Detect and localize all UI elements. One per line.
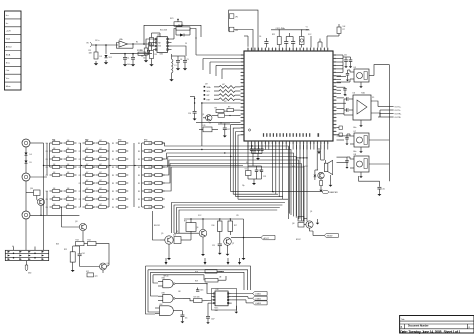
title block bbox=[400, 316, 474, 334]
wire bbox=[153, 211, 161, 240]
power arrow bbox=[204, 258, 207, 265]
diode D3 bbox=[314, 170, 318, 180]
svg-text:4K7: 4K7 bbox=[86, 204, 89, 206]
svg-text:BC547: BC547 bbox=[296, 239, 301, 241]
capacitor C28 bbox=[284, 37, 288, 48]
svg-text:R4: R4 bbox=[46, 175, 48, 177]
net label OUTL+ bbox=[378, 107, 402, 109]
resistor R1 bbox=[89, 45, 99, 65]
svg-text:AGnd: AGnd bbox=[6, 46, 12, 49]
svg-text:D4: D4 bbox=[30, 154, 32, 156]
wire bbox=[244, 36, 248, 47]
svg-text:R3: R3 bbox=[149, 159, 151, 161]
transistor Q3 bbox=[62, 207, 87, 238]
power arrow bbox=[165, 258, 168, 265]
wire bbox=[110, 53, 152, 55]
resistor R6 bbox=[172, 25, 197, 39]
svg-text:JP2: JP2 bbox=[235, 30, 238, 32]
gate U9B bbox=[158, 292, 183, 302]
wire bbox=[374, 65, 389, 76]
svg-text:C6: C6 bbox=[259, 36, 261, 38]
resistor R4 bbox=[150, 46, 157, 59]
jack J4 bbox=[22, 173, 47, 211]
svg-text:C24: C24 bbox=[82, 253, 85, 255]
svg-text:R14: R14 bbox=[88, 239, 91, 241]
svg-text:LOAD2: LOAD2 bbox=[255, 297, 261, 300]
ground bbox=[316, 219, 320, 225]
svg-text:In-: In- bbox=[6, 23, 9, 25]
net label OUTR- bbox=[378, 117, 401, 119]
svg-text:U8: U8 bbox=[354, 154, 356, 156]
svg-text:C5: C5 bbox=[187, 59, 189, 61]
wire bbox=[146, 39, 153, 48]
gate U9C bbox=[155, 304, 182, 316]
wire bbox=[229, 10, 258, 51]
svg-text:R4: R4 bbox=[60, 167, 62, 169]
wire bbox=[190, 97, 195, 112]
IC U12 bbox=[86, 271, 98, 278]
capacitor C5 bbox=[178, 56, 189, 70]
svg-text:Document Number: Document Number bbox=[408, 325, 429, 328]
svg-text:OUTL+: OUTL+ bbox=[395, 107, 402, 109]
capacitor C14 bbox=[345, 157, 350, 169]
svg-text:R4: R4 bbox=[60, 143, 62, 145]
wire bbox=[174, 232, 199, 234]
jack J3 bbox=[22, 139, 44, 153]
svg-text:4K7: 4K7 bbox=[86, 188, 89, 190]
svg-text:R3: R3 bbox=[112, 207, 114, 209]
svg-text:4K7: 4K7 bbox=[99, 140, 102, 142]
wire bbox=[379, 65, 389, 182]
svg-text:10K: 10K bbox=[53, 156, 56, 158]
resistor R5 bbox=[140, 48, 149, 62]
wire bbox=[248, 145, 328, 150]
net flag LOAD2 bbox=[232, 296, 267, 300]
resistor R15 bbox=[184, 219, 196, 231]
capacitor C12 bbox=[344, 99, 353, 115]
wire bbox=[318, 39, 322, 48]
svg-text:OUTR+: OUTR+ bbox=[395, 114, 403, 116]
svg-text:R3: R3 bbox=[149, 183, 151, 185]
capacitor C24 bbox=[78, 248, 85, 261]
ground bbox=[149, 59, 153, 67]
svg-text:R2: R2 bbox=[92, 207, 94, 209]
svg-text:R3: R3 bbox=[138, 191, 140, 193]
svg-text:R4: R4 bbox=[60, 199, 62, 201]
input jack J2 bbox=[87, 42, 95, 47]
svg-text:R2: R2 bbox=[92, 151, 94, 153]
IC U7 bbox=[350, 131, 389, 153]
svg-text:C41: C41 bbox=[344, 95, 347, 97]
svg-text:BEEPER: BEEPER bbox=[330, 192, 339, 194]
ground bbox=[359, 120, 363, 127]
svg-text:R3: R3 bbox=[149, 151, 151, 153]
svg-text:R3: R3 bbox=[149, 175, 151, 177]
IC U8 bbox=[350, 154, 389, 178]
transistor Q4 bbox=[100, 263, 110, 273]
wire bbox=[81, 143, 142, 207]
transistor Q10 bbox=[26, 188, 45, 216]
wire bbox=[371, 101, 380, 117]
IC U2 bbox=[153, 35, 172, 56]
svg-text:4MHz: 4MHz bbox=[306, 29, 310, 31]
ground bbox=[329, 175, 333, 187]
crystal Y1 bbox=[299, 27, 309, 48]
jumper JP2 bbox=[229, 27, 238, 32]
svg-text:Mute: Mute bbox=[6, 85, 12, 88]
svg-text:R3: R3 bbox=[149, 143, 151, 145]
ground bbox=[377, 192, 381, 196]
wire bbox=[183, 298, 211, 300]
wire bbox=[248, 145, 262, 167]
net flag AOUT bbox=[261, 235, 275, 240]
wire bbox=[231, 125, 241, 200]
svg-text:R3: R3 bbox=[112, 199, 114, 201]
capacitor C25 bbox=[212, 240, 222, 255]
svg-text:4K7: 4K7 bbox=[222, 84, 225, 86]
crystal Y3 bbox=[245, 166, 252, 179]
wire bbox=[128, 43, 153, 45]
wire bbox=[212, 289, 237, 311]
svg-text:10K: 10K bbox=[53, 204, 56, 206]
svg-text:C4: C4 bbox=[180, 59, 182, 61]
svg-text:10K: 10K bbox=[67, 204, 70, 206]
svg-text:R3: R3 bbox=[138, 159, 140, 161]
svg-text:4K7: 4K7 bbox=[86, 156, 89, 158]
svg-text:R12: R12 bbox=[64, 249, 67, 251]
resistor R21 bbox=[272, 30, 281, 48]
svg-text:SCL: SCL bbox=[207, 91, 211, 93]
capacitor C26 bbox=[180, 311, 187, 324]
capacitor C31 bbox=[196, 288, 204, 292]
svg-text:100n: 100n bbox=[353, 151, 357, 153]
svg-text:BZX: BZX bbox=[56, 244, 59, 246]
svg-text:J6: J6 bbox=[12, 246, 14, 248]
svg-text:C1: C1 bbox=[127, 58, 129, 60]
svg-text:D1: D1 bbox=[100, 56, 102, 58]
wire bbox=[231, 191, 323, 192]
svg-text:R3: R3 bbox=[112, 143, 114, 145]
resistor R12 bbox=[64, 246, 75, 272]
IC U11 bbox=[199, 125, 218, 132]
svg-text:Q4: Q4 bbox=[107, 263, 109, 265]
jumper JP1 bbox=[229, 14, 238, 19]
transistor Q2 bbox=[318, 172, 324, 180]
svg-text:RN3: RN3 bbox=[118, 140, 121, 142]
svg-text:U12: U12 bbox=[86, 271, 89, 273]
diode D5 bbox=[25, 155, 32, 173]
svg-text:R22 220K: R22 220K bbox=[160, 30, 168, 32]
svg-text:RN2: RN2 bbox=[85, 140, 88, 142]
svg-text:R4: R4 bbox=[60, 159, 62, 161]
svg-text:R3: R3 bbox=[112, 159, 114, 161]
optocoupler U10 bbox=[211, 289, 231, 312]
svg-text:R2: R2 bbox=[92, 143, 94, 145]
capacitor C15 bbox=[377, 187, 384, 192]
svg-text:5V1: 5V1 bbox=[109, 57, 112, 59]
wire bbox=[172, 203, 286, 234]
diode D4 bbox=[25, 153, 32, 157]
svg-text:+12V: +12V bbox=[6, 31, 12, 33]
svg-text:U7: U7 bbox=[354, 131, 356, 133]
resistor R3 bbox=[150, 33, 157, 46]
svg-text:R3: R3 bbox=[149, 191, 151, 193]
capacitor C9 bbox=[346, 70, 350, 81]
wire bbox=[201, 101, 241, 104]
svg-text:R4: R4 bbox=[60, 151, 62, 153]
svg-text:555: 555 bbox=[158, 46, 161, 48]
svg-text:RN4: RN4 bbox=[144, 140, 147, 142]
svg-text:OUTL-: OUTL- bbox=[395, 110, 401, 112]
svg-text:10n: 10n bbox=[143, 58, 146, 60]
svg-text:R2: R2 bbox=[92, 191, 94, 193]
svg-text:R21: R21 bbox=[272, 34, 275, 36]
ground bbox=[235, 306, 239, 314]
capacitor C3 bbox=[141, 48, 150, 58]
svg-text:Q8: Q8 bbox=[292, 223, 294, 225]
capacitor C8 bbox=[349, 57, 353, 68]
wire bbox=[308, 34, 312, 48]
svg-text:R3: R3 bbox=[138, 143, 140, 145]
wire bbox=[144, 25, 201, 44]
wire bbox=[196, 37, 222, 79]
svg-text:Q1: Q1 bbox=[202, 114, 204, 116]
net flag down bbox=[25, 265, 28, 271]
svg-text:10K: 10K bbox=[67, 140, 70, 142]
wire bbox=[80, 261, 100, 267]
capacitor C22 bbox=[255, 166, 262, 176]
resistor R7 bbox=[327, 24, 346, 48]
svg-text:Y1: Y1 bbox=[306, 27, 308, 29]
svg-text:C40: C40 bbox=[344, 55, 347, 57]
wire bbox=[272, 145, 282, 200]
svg-text:R3: R3 bbox=[138, 175, 140, 177]
resistor R18 bbox=[195, 270, 224, 274]
resistor R10 bbox=[212, 114, 241, 118]
op-amp U3 bbox=[119, 38, 128, 48]
svg-text:C9 1u: C9 1u bbox=[95, 40, 99, 42]
power arrow bbox=[238, 258, 241, 265]
svg-text:U9B: U9B bbox=[162, 292, 165, 294]
net flag LOAD1 bbox=[232, 292, 267, 296]
wire bbox=[26, 261, 28, 265]
svg-text:U6: U6 bbox=[353, 93, 355, 95]
svg-text:R3: R3 bbox=[112, 183, 114, 185]
svg-text:R3: R3 bbox=[149, 167, 151, 169]
svg-text:R3: R3 bbox=[112, 175, 114, 177]
power arrow bbox=[227, 258, 230, 265]
capacitor C7 bbox=[344, 57, 348, 68]
net label VCC bbox=[292, 165, 309, 168]
connector J1 bbox=[5, 11, 22, 90]
gate U9A bbox=[158, 277, 180, 288]
resistor R20 bbox=[194, 297, 203, 303]
wire bbox=[181, 231, 191, 240]
wire bbox=[337, 136, 351, 140]
svg-text:Q7: Q7 bbox=[232, 243, 234, 245]
net label OUTR+ bbox=[380, 114, 402, 116]
svg-text:U13: U13 bbox=[173, 235, 176, 237]
svg-text:Date: Tuesday, June 14, 2005: Date: Tuesday, June 14, 2005 Sheet 1 of … bbox=[400, 330, 460, 334]
jack J5 bbox=[22, 211, 79, 250]
svg-text:R2: R2 bbox=[92, 199, 94, 201]
wire bbox=[337, 157, 349, 162]
capacitor C17 bbox=[218, 123, 230, 137]
svg-text:R15: R15 bbox=[184, 220, 187, 222]
resistor R13 bbox=[76, 239, 85, 245]
net flag RELAY bbox=[324, 234, 338, 238]
capacitor C10 bbox=[337, 87, 347, 96]
svg-text:10K: 10K bbox=[53, 172, 56, 174]
svg-text:R2: R2 bbox=[92, 159, 94, 161]
svg-text:10K: 10K bbox=[53, 188, 56, 190]
svg-text:4K7: 4K7 bbox=[99, 180, 102, 182]
power arrow bbox=[318, 148, 321, 154]
svg-text:Y3: Y3 bbox=[245, 169, 247, 171]
svg-text:10K: 10K bbox=[67, 148, 70, 150]
svg-text:4K7: 4K7 bbox=[86, 148, 89, 150]
svg-text:4K7: 4K7 bbox=[205, 84, 208, 86]
svg-text:RV1: RV1 bbox=[170, 18, 173, 20]
svg-text:4K7: 4K7 bbox=[86, 172, 89, 174]
ground bbox=[248, 176, 262, 185]
svg-text:R4: R4 bbox=[155, 54, 157, 56]
text bbox=[52, 140, 147, 142]
capacitor C11 bbox=[344, 97, 353, 100]
svg-text:Q3: Q3 bbox=[75, 221, 77, 223]
svg-text:LOAD1: LOAD1 bbox=[255, 293, 261, 296]
svg-text:D5: D5 bbox=[30, 162, 32, 164]
svg-text:4K7: 4K7 bbox=[99, 172, 102, 174]
wire bbox=[233, 194, 288, 199]
wire bbox=[196, 122, 241, 123]
svg-text:R2: R2 bbox=[136, 42, 138, 44]
transistor Q5 bbox=[160, 233, 173, 260]
svg-text:R2: R2 bbox=[92, 175, 94, 177]
transistor Q6 bbox=[196, 226, 207, 256]
wire bbox=[290, 145, 307, 222]
resistor network RN3 bbox=[112, 142, 165, 209]
svg-text:R5: R5 bbox=[140, 50, 142, 52]
wire bbox=[287, 214, 289, 219]
resistor R16 bbox=[212, 219, 223, 240]
svg-text:Q9: Q9 bbox=[310, 211, 312, 213]
resistor R8 bbox=[215, 108, 228, 113]
svg-text:R3: R3 bbox=[149, 199, 151, 201]
capacitor C4 bbox=[172, 56, 183, 70]
microcontroller U1 bbox=[241, 48, 337, 145]
wire bbox=[172, 46, 187, 56]
wire bbox=[337, 77, 351, 82]
wire bbox=[359, 176, 380, 187]
terminal block TB1 bbox=[5, 247, 48, 261]
trimmer RV1 bbox=[170, 18, 182, 26]
svg-text:1K: 1K bbox=[176, 231, 178, 233]
svg-text:4K7: 4K7 bbox=[99, 196, 102, 198]
svg-text:X2: X2 bbox=[246, 162, 248, 164]
svg-text:L1: L1 bbox=[175, 65, 177, 67]
svg-text:R16: R16 bbox=[212, 225, 215, 227]
svg-text:10n: 10n bbox=[185, 318, 188, 320]
resistor network RN2 bbox=[79, 140, 109, 209]
svg-text:10K: 10K bbox=[53, 148, 56, 150]
svg-text:OUTR-: OUTR- bbox=[395, 117, 402, 119]
wire bbox=[317, 145, 324, 171]
svg-text:12V: 12V bbox=[236, 215, 239, 217]
wire bbox=[242, 219, 246, 260]
capacitor bank C18-C21 bbox=[250, 145, 264, 160]
IC U13 bbox=[173, 235, 181, 244]
svg-text:4K7: 4K7 bbox=[99, 148, 102, 150]
svg-text:R2: R2 bbox=[92, 167, 94, 169]
resistor R9 bbox=[227, 107, 241, 112]
IC U6 bbox=[353, 92, 372, 120]
wire bbox=[146, 266, 251, 314]
svg-text:OSC1 4MHz: OSC1 4MHz bbox=[276, 28, 286, 30]
svg-text:R17: R17 bbox=[234, 225, 237, 227]
svg-text:SDA: SDA bbox=[6, 53, 11, 56]
svg-text:U10: U10 bbox=[216, 289, 219, 291]
svg-text:100n: 100n bbox=[200, 290, 204, 292]
wire bbox=[231, 237, 261, 238]
svg-text:10K: 10K bbox=[67, 196, 70, 198]
svg-text:C16: C16 bbox=[188, 113, 191, 115]
svg-text:R3: R3 bbox=[112, 191, 114, 193]
wire bbox=[296, 145, 308, 159]
svg-text:R4: R4 bbox=[60, 175, 62, 177]
svg-text:R9: R9 bbox=[228, 107, 230, 109]
transistor Q8 bbox=[292, 217, 324, 236]
svg-text:5532: 5532 bbox=[160, 54, 164, 56]
svg-text:10K: 10K bbox=[67, 188, 70, 190]
net label SDA bbox=[204, 86, 241, 90]
svg-text:R2: R2 bbox=[79, 207, 81, 209]
resistor R19 bbox=[195, 275, 226, 283]
capacitor C6 bbox=[259, 36, 269, 48]
svg-text:R13: R13 bbox=[76, 239, 79, 241]
wire bbox=[337, 98, 347, 114]
svg-text:100n: 100n bbox=[127, 64, 131, 66]
net label BEEP bbox=[322, 190, 338, 194]
capacitor C2 bbox=[127, 54, 135, 67]
transistor Q1 bbox=[202, 114, 212, 121]
wire bbox=[184, 218, 244, 226]
svg-text:Q6: Q6 bbox=[196, 227, 198, 229]
svg-text:R3: R3 bbox=[138, 183, 140, 185]
svg-text:R3: R3 bbox=[149, 207, 151, 209]
svg-text:U5: U5 bbox=[354, 67, 356, 69]
capacitor C30 bbox=[337, 126, 343, 136]
wire bbox=[117, 43, 134, 49]
wire bbox=[44, 165, 243, 166]
svg-text:4K7: 4K7 bbox=[99, 188, 102, 190]
svg-text:R6 1M: R6 1M bbox=[178, 25, 184, 27]
svg-text:AOUT: AOUT bbox=[264, 237, 270, 240]
svg-text:10K: 10K bbox=[67, 156, 70, 158]
svg-text:C17: C17 bbox=[227, 129, 230, 131]
net flag LOAD3 bbox=[232, 300, 267, 305]
svg-text:R7: R7 bbox=[343, 29, 345, 31]
wire bbox=[271, 28, 309, 30]
svg-text:4K7: 4K7 bbox=[86, 196, 89, 198]
net label OUTL- bbox=[380, 110, 401, 112]
wire bbox=[201, 103, 203, 146]
capacitor C23 bbox=[260, 166, 266, 178]
capacitor C1 bbox=[123, 54, 130, 67]
capacitor C29 bbox=[286, 33, 295, 48]
svg-text:R19: R19 bbox=[195, 280, 198, 282]
wire bbox=[94, 44, 118, 46]
